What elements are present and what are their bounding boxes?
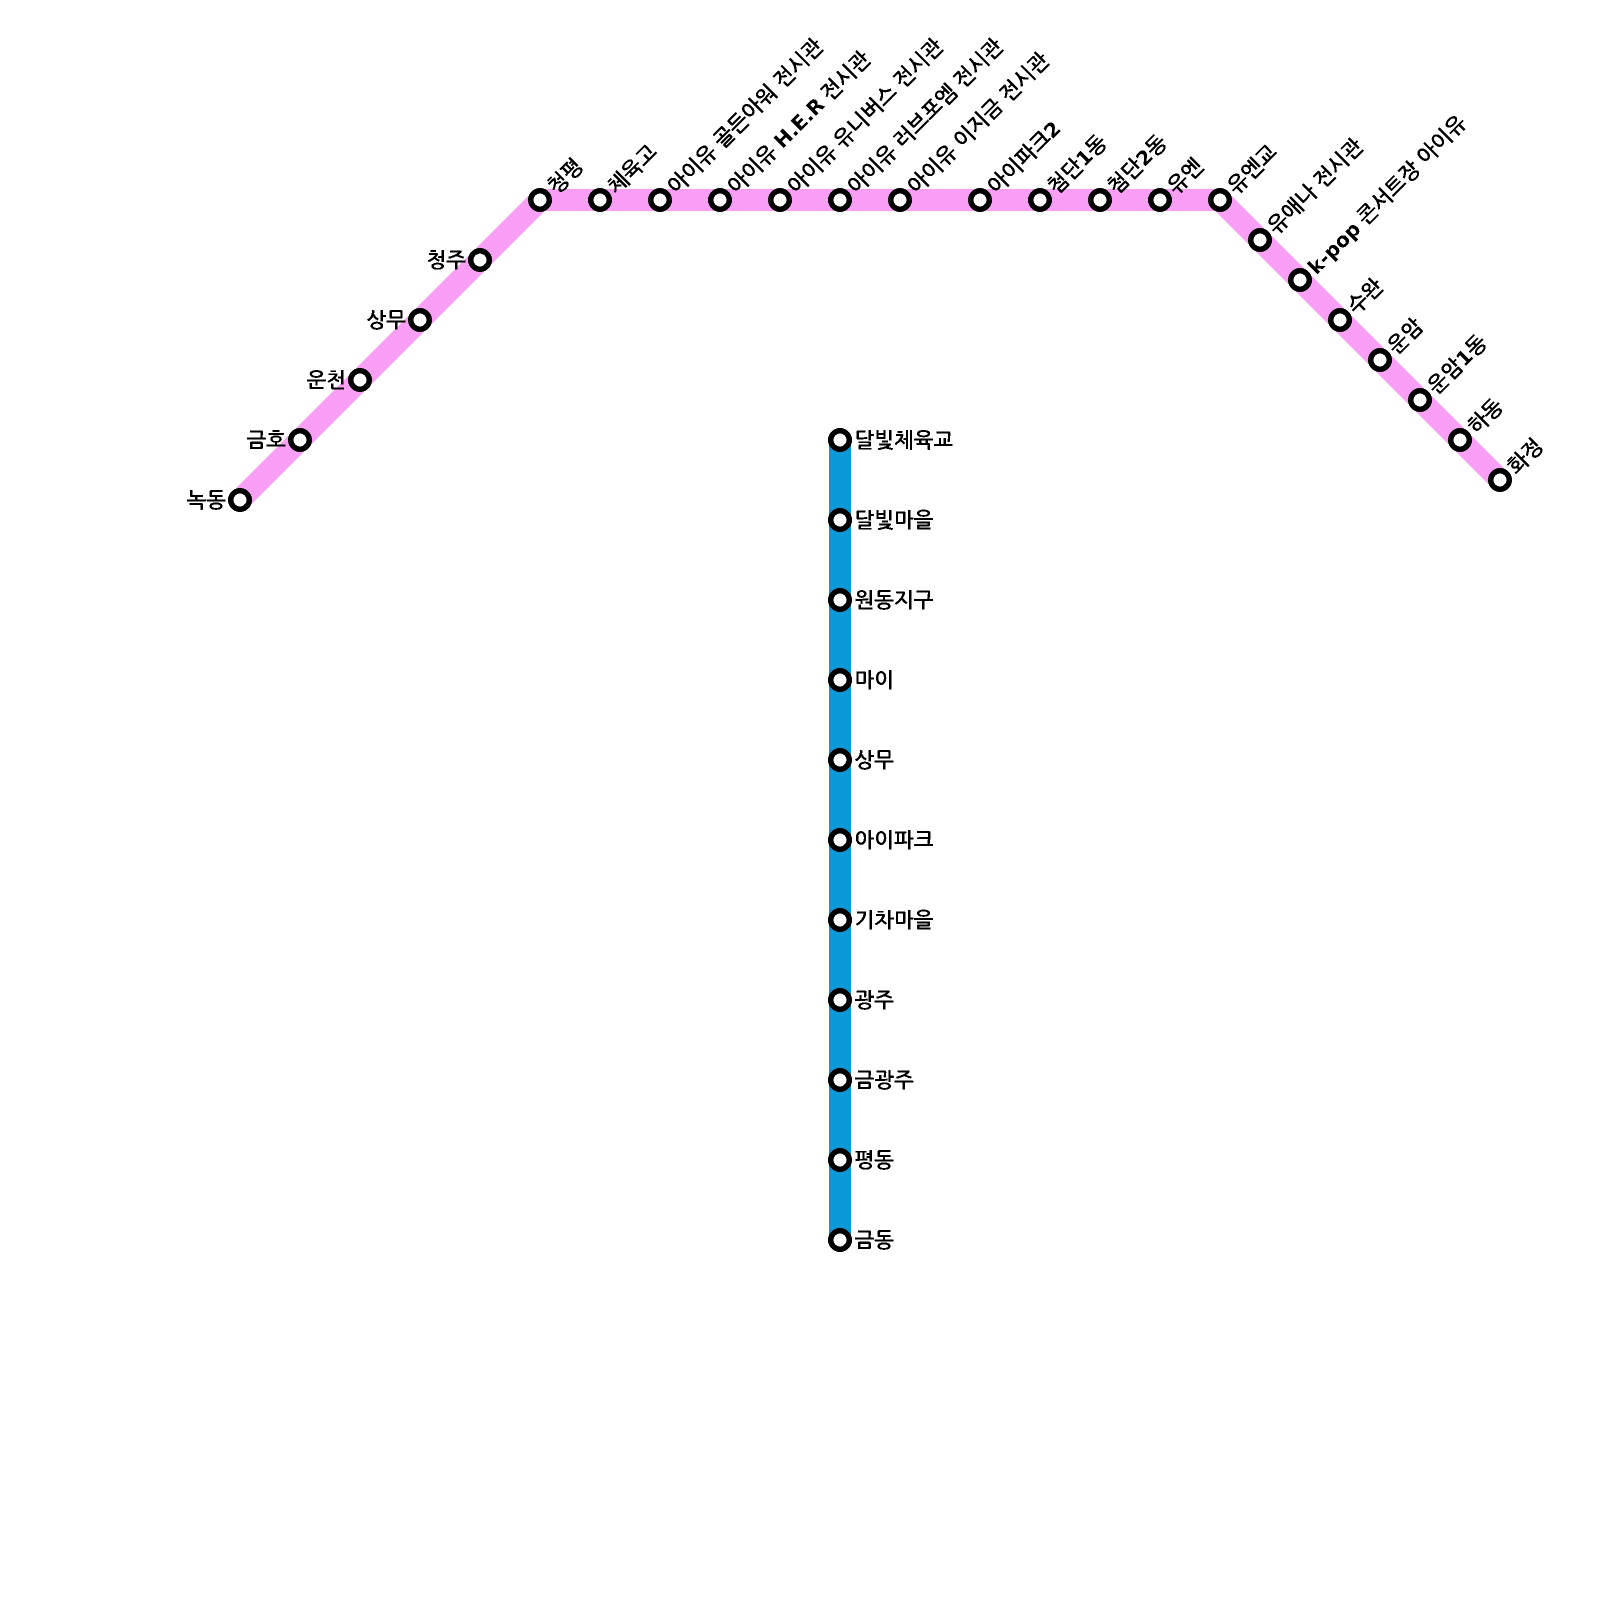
station 평동 (840,1160) (831, 1151, 849, 1169)
station 달빛마을 (840,520) (831, 511, 849, 529)
station 원동지구 (840,600) (831, 591, 849, 609)
label 금동 (855, 1230, 894, 1250)
station 운암 (1380,360) (1371, 351, 1389, 369)
station 청주 (480,260) (471, 251, 489, 269)
station 마이 (840,680) (831, 671, 849, 689)
station 금호 (300,440) (291, 431, 309, 449)
station 아이유 이지금 전시관 (900,200) (891, 191, 909, 209)
label 마이 (856, 670, 891, 690)
label 유엔교 (1224, 141, 1279, 196)
label 상무 (855, 750, 893, 770)
label 기차마을 (856, 910, 933, 930)
station 청평 (540,200) (531, 191, 549, 209)
station 상무 (420,320) (411, 311, 429, 329)
station 금광주 (840,1080) (831, 1071, 849, 1089)
pink metro line 1 polyline (240, 200, 1500, 500)
station 금동 (840,1240) (831, 1231, 849, 1249)
label 첨단1동 (1045, 132, 1110, 197)
station 유애나 전시관 (1260,240) (1251, 231, 1269, 249)
label 녹동 (187, 490, 226, 510)
label 수완 (1344, 275, 1386, 317)
label 화정 (1504, 437, 1544, 477)
label 달빛마을 (857, 510, 934, 530)
label 아이유 H.E.R 전시관 (725, 48, 873, 196)
station 기차마을 (840,920) (831, 911, 849, 929)
label 운암1동 (1424, 332, 1489, 397)
label k-pop 콘서트장 아이유 (1305, 112, 1470, 277)
label 금호 (247, 430, 286, 449)
label 평동 (855, 1150, 893, 1170)
blue metro line 2 vertical (829, 440, 851, 1240)
label 아이유 골든아워 전시관 (665, 35, 826, 196)
station 아이유 러브포엠 전시관 (840,200) (831, 191, 849, 209)
label 첨단2동 (1105, 132, 1170, 197)
station 화정 (1500,480) (1491, 471, 1509, 489)
label 광주 (855, 990, 893, 1010)
label 아이파크 (856, 830, 933, 850)
label 유애나 전시관 (1264, 135, 1366, 237)
station 아이유 골든아워 전시관 (660,200) (651, 191, 669, 209)
label 청평 (545, 157, 584, 196)
station 첨단1동 (1040,200) (1031, 191, 1049, 209)
station 상무 (840,760) (831, 751, 849, 769)
station 운암1동 (1420,400) (1411, 391, 1429, 409)
label 상무 (367, 310, 405, 330)
station 수완 (1340,320) (1331, 311, 1349, 329)
station 아이파크 (840,840) (831, 831, 849, 849)
station 유엔 (1160,200) (1151, 191, 1169, 209)
label 금광주 (855, 1070, 913, 1090)
label 운천 (307, 370, 344, 390)
label 유엔 (1164, 156, 1205, 197)
station 아이유 유니버스 전시관 (780,200) (771, 191, 789, 209)
label 원동지구 (855, 590, 933, 610)
station 첨단2동 (1100,200) (1091, 191, 1109, 209)
station 아이파크2 (980,200) (971, 191, 989, 209)
station 달빛체육교 (840,440) (831, 431, 849, 449)
label 체육고 (604, 141, 659, 196)
station 유엔교 (1220,200) (1211, 191, 1229, 209)
label 아이유 유니버스 전시관 (785, 35, 946, 196)
label 아이유 러브포엠 전시관 (845, 35, 1006, 196)
station k-pop 콘서트장 아이유 (1300,280) (1291, 271, 1309, 289)
label 달빛체육교 (857, 430, 953, 450)
station 아이유 H.E.R 전시관 (720,200) (711, 191, 729, 209)
label 청주 (428, 250, 466, 270)
station 광주 (840,1000) (831, 991, 849, 1009)
station 하동 (1460,440) (1451, 431, 1469, 449)
station 녹동 (240,500) (231, 491, 249, 509)
label 아이파크2 (985, 118, 1063, 196)
station 운천 (360,380) (351, 371, 369, 389)
label 하동 (1465, 395, 1506, 436)
station 체육고 (600,200) (591, 191, 609, 209)
label 아이유 이지금 전시관 (905, 49, 1052, 196)
label 운암 (1384, 315, 1425, 356)
